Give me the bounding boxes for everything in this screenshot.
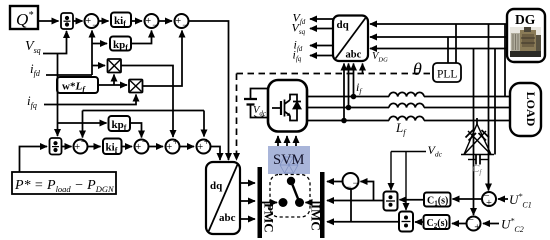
wire down into sumD top	[203, 111, 205, 137]
wire S7 to C2	[452, 223, 467, 225]
switch contact right	[295, 198, 304, 207]
svg-text:−: −	[81, 137, 87, 148]
svg-text:C1(s): C1(s)	[427, 196, 448, 208]
wire V_dc to divider D2	[405, 152, 407, 211]
svg-text:kif: kif	[114, 15, 126, 29]
wire ki_f to sum2	[131, 20, 142, 22]
summing junction sum1	[85, 14, 99, 32]
svg-text:dq: dq	[210, 180, 223, 192]
svg-text:Vsq: Vsq	[25, 39, 41, 55]
wire divider to sum1	[73, 20, 83, 22]
svg-text:kpf: kpf	[113, 39, 128, 53]
svg-text:C2(s): C2(s)	[427, 218, 448, 230]
block P* = Pload - PDGN	[12, 172, 116, 194]
wire theta dashed from PLL	[237, 73, 434, 75]
wire D1 tap into S5	[361, 182, 374, 201]
summing junction sum2	[145, 14, 159, 32]
divider block D2	[399, 212, 413, 232]
svg-text:PMC: PMC	[262, 203, 277, 233]
switch dashed box	[270, 175, 310, 218]
controller block C2(s)	[424, 215, 450, 230]
wire V_sq to divider bottom	[43, 31, 67, 54]
summing junction sumB	[135, 137, 149, 154]
wire i_fd from label	[46, 74, 92, 76]
svg-text:−: −	[142, 137, 148, 148]
wire ki_f2 to sumB	[122, 146, 133, 148]
wire dq2 output b to PMC	[240, 200, 255, 202]
inverter block	[268, 80, 307, 132]
junction dot a	[341, 118, 347, 124]
wire sumD output into dq2 top	[211, 147, 221, 161]
svg-text:−: −	[152, 21, 158, 32]
wire PLL tap 1	[447, 37, 449, 63]
svg-text:abc: abc	[219, 212, 236, 224]
wire i_fq to X2 bottom	[44, 95, 136, 105]
svg-text:PLL: PLL	[437, 69, 457, 81]
capacitor V_dc source	[244, 89, 268, 118]
bus phase 3 wire	[307, 120, 389, 122]
wire V_dc sense line	[391, 151, 426, 153]
svg-text:−: −	[353, 179, 359, 190]
bus phase 1 wire	[307, 96, 389, 98]
PLL block	[433, 63, 461, 82]
wire sense left down to U_C2 sum	[473, 49, 475, 216]
svg-text:U*C1: U*C1	[509, 192, 532, 210]
wire U*C2 into S7	[483, 223, 499, 225]
svg-text:abc: abc	[346, 50, 362, 61]
load block	[510, 83, 541, 136]
wire IMC to switch	[306, 202, 321, 204]
transform block dq1 (abc to dq)	[333, 16, 368, 62]
summing junction sumC	[166, 137, 180, 154]
wire DG drop to bus phase 1	[504, 24, 506, 97]
wire U*C1 into S6	[498, 198, 508, 200]
gain block w*L_f	[57, 77, 98, 94]
svg-text:−: −	[468, 215, 474, 226]
bus phase 1 wire right	[424, 96, 511, 98]
svg-text:θ: θ	[413, 59, 422, 79]
wire w*L_f to X1 bottom	[113, 75, 115, 86]
svg-text:VDG: VDG	[372, 51, 388, 64]
inductor L_f phase 1	[389, 92, 424, 96]
gain block kp_f (d-axis)	[109, 116, 131, 133]
bus phase 2 wire	[307, 107, 389, 109]
svg-text:kpf: kpf	[112, 119, 127, 133]
svg-text:+: +	[197, 142, 203, 153]
wire kp_f to sum2 bottom	[131, 31, 152, 44]
svg-text:Cf: Cf	[472, 163, 482, 177]
wire S6 to C1	[453, 198, 483, 200]
svg-text:−: −	[92, 21, 98, 32]
inductor L_f phase 3	[389, 116, 424, 120]
wire V_DG phase B into dq1	[370, 36, 506, 38]
wire dq1 output V_fd	[310, 18, 333, 20]
summing junction S5	[343, 173, 359, 194]
wire sum1 to ki_f	[99, 20, 109, 22]
wire P* to divider D3	[20, 147, 48, 173]
svg-text:if: if	[356, 80, 362, 96]
wire V_sq down to divider D3	[57, 54, 59, 137]
wire measurement tap c into dq1	[353, 64, 355, 97]
summing junction S6	[482, 191, 496, 209]
svg-text:ifq: ifq	[27, 93, 37, 110]
capacitor bank C_f delta	[461, 124, 494, 165]
gate signal wires SVM to inverter	[278, 136, 296, 146]
divider block V1	[61, 13, 73, 29]
switch blade	[291, 181, 300, 203]
wire D2 output to IMC	[327, 221, 399, 223]
svg-text:+: +	[145, 16, 151, 27]
wire i_fd node to kp_f	[92, 43, 107, 45]
wire X2 output up to sum3 bottom	[143, 31, 183, 87]
svg-text:+: +	[175, 16, 181, 27]
wire sum2 to sum3	[159, 20, 173, 22]
bus phase 2 wire right	[424, 107, 511, 109]
label V_dc	[253, 105, 267, 118]
svg-text:+: +	[74, 142, 80, 153]
transistor Q1 IGBT with diode	[272, 95, 301, 121]
svg-text:+: +	[474, 222, 480, 233]
wire sense right down to U_C1 sum	[488, 24, 490, 191]
wire sumA to ki_f2	[88, 146, 101, 148]
wire theta dashed down into dq2	[236, 74, 238, 161]
generator DG block	[507, 9, 545, 62]
inductor L_f phase 2	[389, 103, 424, 107]
wire X1 output down to sumC	[121, 66, 173, 138]
svg-text:+: +	[85, 16, 91, 27]
wire w*L_f to multiplier X2	[98, 84, 127, 86]
gain block ki_f (q-axis)	[111, 13, 131, 29]
wire V_dc to divider D1	[390, 152, 392, 191]
wire DG drop to bus	[494, 49, 496, 155]
svg-text:+: +	[166, 142, 172, 153]
wire dq2 output c to PMC	[240, 218, 255, 220]
svg-text:Vdc: Vdc	[428, 143, 443, 159]
summing junction sumD	[197, 137, 211, 154]
svg-text:+: +	[135, 142, 141, 153]
wire S5 bottom tap	[350, 189, 352, 222]
svg-text:P* = Pload − PDGN: P* = Pload − PDGN	[14, 178, 115, 194]
wire measurement tap b into dq1	[348, 64, 350, 108]
controller block C1(s)	[424, 193, 451, 208]
wire sumC to sumD	[180, 146, 195, 148]
wire node to kp_f2	[58, 122, 107, 124]
svg-text:Q*: Q*	[16, 10, 33, 29]
bus phase 3 wire right	[424, 120, 511, 122]
divider block D1	[384, 192, 398, 211]
svg-text:−: −	[182, 21, 188, 32]
wire D3 to sumA	[62, 146, 72, 148]
transform block dq2 (dq to abc)	[206, 162, 240, 234]
wire dq2 output a to PMC	[240, 182, 255, 184]
wire C2 to D2	[415, 221, 424, 223]
svg-text:SVM: SVM	[273, 152, 305, 168]
block Q* reference	[10, 6, 38, 29]
wire kp_f2 to sumB top	[130, 123, 142, 138]
wire S5 output to IMC	[327, 181, 344, 183]
multiplier X1	[108, 59, 122, 73]
wire Q* to divider	[38, 20, 59, 22]
wire dq1 output i_fq	[310, 55, 333, 57]
junction dot b	[346, 105, 352, 111]
svg-text:LOAD: LOAD	[524, 92, 538, 127]
svg-text:+: +	[204, 137, 210, 148]
svg-text:+: +	[486, 198, 492, 209]
divider block D3	[50, 138, 62, 155]
wire i_fd feedback vertical into sum1	[91, 31, 93, 76]
wire sum3 output down to dq2 block	[189, 21, 229, 160]
wire theta dashed up into dq1	[362, 64, 364, 74]
svg-text:dq: dq	[337, 19, 350, 31]
svg-text:+: +	[173, 137, 179, 148]
wire i_fd node to multiplier X1	[92, 65, 105, 67]
multiplier X2	[129, 80, 143, 93]
wire D1 output to IMC	[327, 200, 384, 202]
summing junction sumA	[74, 137, 88, 154]
svg-text:Lf: Lf	[395, 120, 407, 137]
SVM block	[268, 146, 310, 174]
svg-text:IMC: IMC	[309, 204, 324, 231]
summing junction sum3	[175, 14, 189, 32]
wire sumB to sumC	[149, 146, 164, 148]
svg-text:U*C2: U*C2	[501, 217, 524, 235]
svg-text:ifd: ifd	[30, 61, 41, 78]
wire dq1 output V_sq	[310, 28, 333, 30]
switch contact left	[279, 198, 288, 207]
svg-text:Vdc: Vdc	[253, 105, 267, 118]
gain block kp_f (q-axis)	[110, 37, 131, 53]
wire sense mid down to C_f	[476, 118, 478, 125]
wire measurement tap a into dq1	[343, 64, 345, 121]
switch pole node	[287, 177, 295, 185]
wire feedforward line into sumA top	[83, 110, 205, 112]
wire V_DG phase C into dq1	[370, 48, 506, 50]
svg-text:kif: kif	[106, 142, 118, 156]
bus bar IMC	[309, 172, 325, 238]
wire PLL tap 2	[455, 24, 457, 63]
bus bar PMC	[258, 167, 277, 238]
svg-text:DG: DG	[515, 12, 536, 27]
gain block ki_f (d-axis)	[103, 139, 122, 156]
wire PMC to switch	[262, 202, 277, 204]
svg-text:w*Lf: w*Lf	[62, 81, 86, 95]
wire V_DG phase A into dq1	[370, 23, 506, 25]
junction dot c	[351, 94, 357, 100]
wire C1 to D1	[400, 199, 425, 201]
wire dq1 output i_fd	[310, 45, 333, 47]
summing junction S7	[467, 215, 481, 233]
